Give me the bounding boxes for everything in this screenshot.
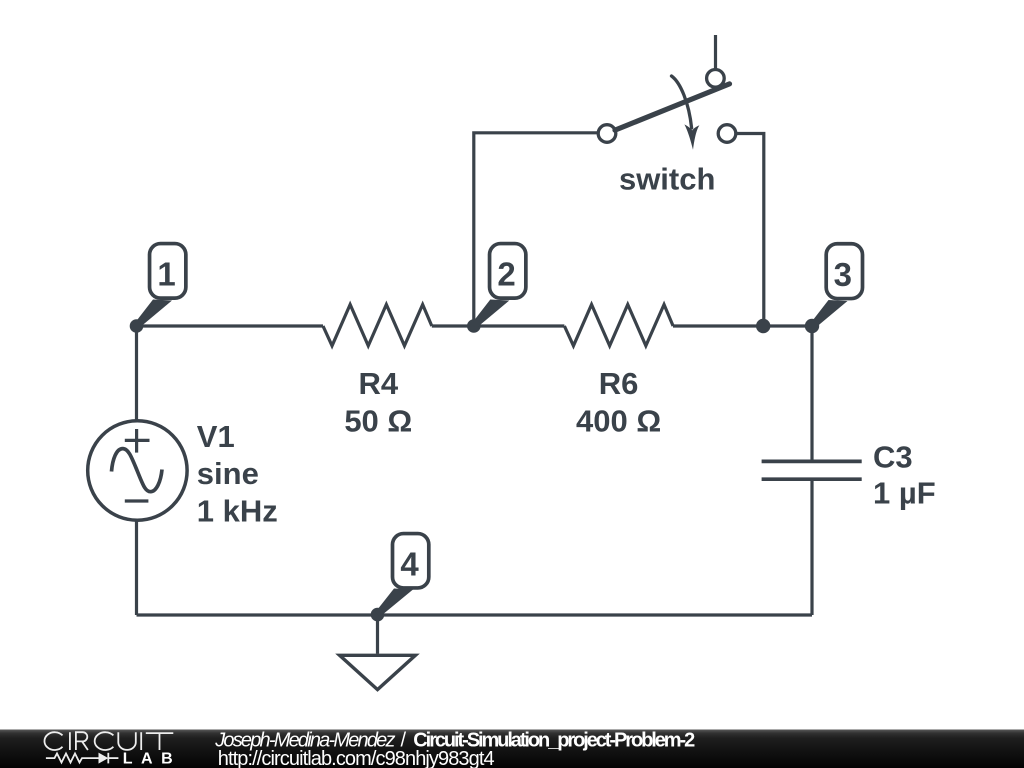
svg-text:400 Ω: 400 Ω	[576, 403, 661, 438]
svg-text:C3: C3	[873, 440, 913, 475]
svg-text:sine: sine	[197, 456, 259, 491]
svg-text:1 kHz: 1 kHz	[197, 493, 278, 528]
svg-text:V1: V1	[197, 419, 235, 454]
svg-text:http://circuitlab.com/c98nhjy9: http://circuitlab.com/c98nhjy983gt4	[218, 748, 495, 768]
svg-text:4: 4	[400, 546, 419, 583]
svg-text:LAB: LAB	[123, 750, 173, 767]
svg-text:switch: switch	[619, 162, 715, 197]
svg-text:3: 3	[834, 256, 852, 293]
svg-text:R6: R6	[599, 366, 639, 401]
svg-text:R4: R4	[358, 366, 398, 401]
svg-text:50 Ω: 50 Ω	[344, 403, 412, 438]
svg-text:1 µF: 1 µF	[873, 475, 936, 510]
svg-text:1: 1	[157, 256, 175, 293]
svg-text:2: 2	[497, 256, 515, 293]
